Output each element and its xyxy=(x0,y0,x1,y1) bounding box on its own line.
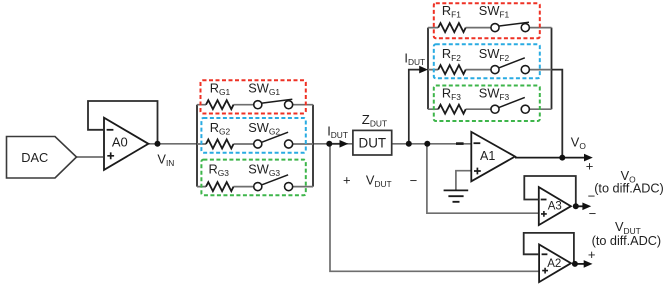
switch SWF3 xyxy=(491,97,529,113)
A2 feedback loop wire xyxy=(524,233,574,264)
svg-text:DUT: DUT xyxy=(359,135,387,150)
arrow A2 output xyxy=(584,260,593,268)
A0 feedback loop wire xyxy=(88,101,158,144)
wire RG1 branch xyxy=(197,104,313,106)
svg-text:A2: A2 xyxy=(547,258,561,270)
arrow IDUT on main wire xyxy=(332,143,340,145)
RG left bus xyxy=(196,105,198,187)
wire RF2 out to VO node xyxy=(552,70,563,158)
dashed select box RG2/SWG2 (blue) xyxy=(201,118,305,153)
svg-text:A1: A1 xyxy=(480,149,495,163)
switch SWF2 xyxy=(491,58,529,74)
op-amp A1 xyxy=(471,132,515,181)
switch SWF1 xyxy=(491,22,529,31)
wire RG3 branch xyxy=(197,186,313,188)
node VIN xyxy=(155,141,161,147)
arrow VO output xyxy=(584,154,593,162)
RF right bus xyxy=(551,28,553,110)
wire RF2 branch xyxy=(428,69,552,71)
DAC block xyxy=(7,137,77,179)
resistor RF1 xyxy=(438,23,466,32)
dashed select box RF3/SWF3 (green) xyxy=(434,86,540,122)
wire RF1 branch xyxy=(428,27,552,29)
switch SWG3 xyxy=(254,175,293,191)
node A3 output xyxy=(573,203,579,209)
op-amp A0 xyxy=(104,118,148,170)
wire DUT to A1 inverting input xyxy=(392,143,471,145)
wire RG2 branch xyxy=(197,143,313,145)
resistor RG3 xyxy=(206,182,234,191)
dashed select box RF1/SWF1 (red) xyxy=(434,3,540,38)
switch SWG2 xyxy=(254,132,293,148)
A3 feedback loop wire xyxy=(524,176,576,206)
svg-text:−: − xyxy=(410,173,418,188)
switch SWG1 xyxy=(254,99,293,108)
wire DAC to A0 + input xyxy=(77,156,104,158)
node IDUT xyxy=(326,141,332,147)
wire A2 output stub xyxy=(575,263,586,265)
DUT block xyxy=(353,130,392,155)
wire IDUT node down and across to A2 + input xyxy=(330,144,539,271)
op-amp A2 xyxy=(539,245,571,283)
wire IDUT sense up to RF bus xyxy=(409,70,421,144)
svg-text:+: + xyxy=(588,247,596,262)
wire RF3 branch xyxy=(428,108,552,110)
svg-text:A0: A0 xyxy=(112,134,128,149)
RG right bus xyxy=(312,105,314,187)
svg-text:+: + xyxy=(586,159,594,174)
svg-text:−: − xyxy=(589,206,597,221)
wire A1 + input to ground xyxy=(456,171,471,191)
wire A0 output to RG bus (VIN net) xyxy=(149,143,197,145)
node VDUT- xyxy=(424,141,430,147)
dashed select box RG3/SWG3 (green) xyxy=(201,160,305,196)
svg-text:(to diff.ADC): (to diff.ADC) xyxy=(592,234,662,248)
svg-text:DAC: DAC xyxy=(21,150,48,165)
node A2 output xyxy=(572,261,578,267)
minus polarity dash on A1 input wire xyxy=(456,142,464,145)
resistor RF3 xyxy=(438,105,466,114)
resistor RG2 xyxy=(206,140,234,149)
wire VDUT- node down and across to A3 + input xyxy=(427,144,539,213)
arrow IDUT sense into RF bus xyxy=(419,66,428,74)
dashed select box RG1/SWG1 (red) xyxy=(201,80,306,113)
resistor RG1 xyxy=(206,100,234,109)
svg-text:A3: A3 xyxy=(548,201,562,213)
arrow A3 output xyxy=(582,203,591,211)
node VO xyxy=(559,155,565,161)
svg-text:(to diff.ADC): (to diff.ADC) xyxy=(594,182,664,196)
wire A1 output to VO arrow xyxy=(515,157,588,159)
svg-text:−: − xyxy=(588,189,596,204)
wire A3 output stub xyxy=(576,205,585,207)
node DUT/IDUT-sense xyxy=(406,141,412,147)
wire RG right bus to DUT (IDUT net) xyxy=(313,143,353,145)
RF left bus xyxy=(427,28,429,110)
dashed select box RF2/SWF2 (blue) xyxy=(434,44,540,78)
ground symbol xyxy=(444,190,469,201)
op-amp A3 xyxy=(539,187,571,225)
resistor RF2 xyxy=(438,65,466,74)
svg-text:+: + xyxy=(343,172,351,187)
